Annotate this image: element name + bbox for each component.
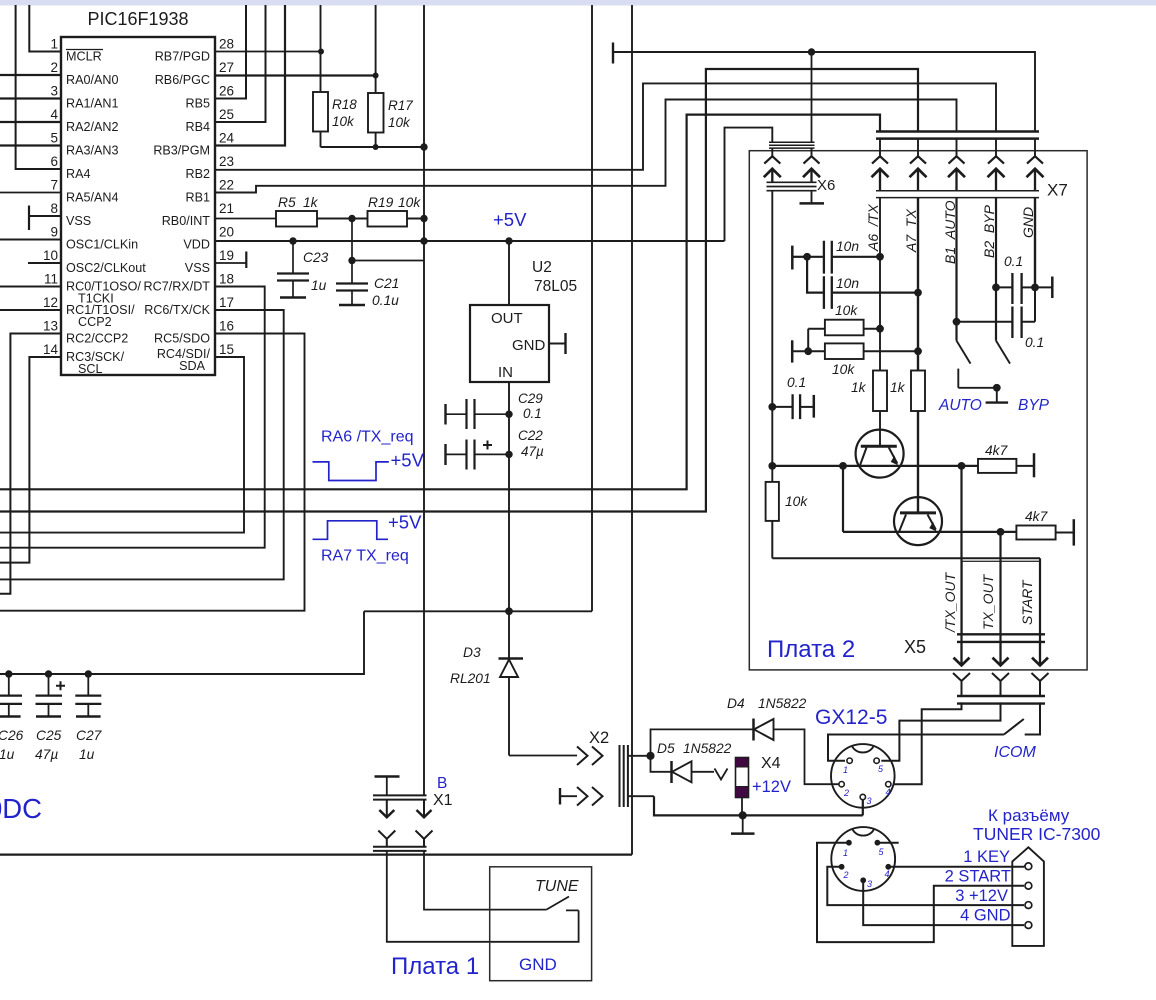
pin 5 wire <box>0 144 61 146</box>
svg-text:20: 20 <box>219 225 234 240</box>
resistor R17 <box>368 5 413 147</box>
pin 21 wire RB0/INT <box>215 218 276 220</box>
wire GND branch to X6 pin2 <box>811 52 813 142</box>
node VDD/B junction <box>420 237 427 244</box>
resistor 1k first <box>851 371 887 412</box>
wire B line vertical (to X1) <box>423 5 425 795</box>
svg-text:4k7: 4k7 <box>985 443 1009 458</box>
svg-text:X2: X2 <box>589 729 609 747</box>
label B2_BYP vertical <box>981 204 997 258</box>
svg-text:10k: 10k <box>835 303 858 318</box>
node R17 top junction <box>373 73 379 79</box>
svg-text:28: 28 <box>219 37 234 52</box>
svg-text:VDD: VDD <box>183 238 210 252</box>
connector X6 chevrons and pins <box>764 148 836 194</box>
blue waveform RA6 <box>313 429 425 481</box>
svg-text:18: 18 <box>219 272 234 287</box>
svg-text:4: 4 <box>885 869 890 879</box>
svg-text:2 START: 2 START <box>945 868 1011 886</box>
svg-text:+5V: +5V <box>388 512 422 533</box>
switch TUNE blade <box>546 897 569 910</box>
svg-text:RB6/PGC: RB6/PGC <box>155 73 210 87</box>
wire U2 GND lead terminal <box>549 333 566 354</box>
svg-text:13: 13 <box>43 319 58 334</box>
wire bottom long y854 <box>0 853 632 855</box>
svg-text:10k: 10k <box>332 114 355 129</box>
svg-text:+5V: +5V <box>493 209 527 230</box>
capacitor 0.1 lower right <box>953 287 1045 350</box>
svg-text:RA2/AN2: RA2/AN2 <box>66 120 119 134</box>
svg-text:+5V: +5V <box>391 450 425 471</box>
ground X6 pin2 <box>800 191 825 204</box>
wire rail2 <box>843 528 1016 536</box>
svg-text:1N5822: 1N5822 <box>758 696 807 711</box>
label 1 KEY <box>963 848 1010 866</box>
resistor 1k second <box>890 371 925 412</box>
svg-text:RL201: RL201 <box>450 671 491 686</box>
svg-text:Плата 2: Плата 2 <box>767 636 855 663</box>
wire B2_BYP inside board <box>995 198 997 341</box>
svg-text:К разъёму: К разъёму <box>988 806 1070 825</box>
wire X1 left pin to TUNE return <box>387 851 579 942</box>
svg-text:R18: R18 <box>332 97 357 112</box>
svg-text:1k: 1k <box>303 195 319 210</box>
wire GND top rail <box>613 48 1035 131</box>
wire GX12 upper pin3 to +12V <box>862 800 864 816</box>
capacitor 10n first <box>792 239 884 274</box>
capacitor C25 polarized <box>35 670 65 762</box>
diode D4 1N5822 <box>651 696 842 784</box>
pin 25 wire RB4 <box>215 5 266 122</box>
label A6_/TX vertical <box>865 204 881 252</box>
wire B1_AUTO inside board <box>955 198 957 341</box>
svg-text:14: 14 <box>43 342 59 357</box>
svg-text:RA7 TX_req: RA7 TX_req <box>321 548 409 565</box>
svg-text:21: 21 <box>219 201 234 216</box>
resistor 10k row1 <box>808 303 884 351</box>
resistor 4k7 first <box>978 443 1034 477</box>
svg-text:START: START <box>1019 579 1035 625</box>
svg-text:C22: C22 <box>518 428 543 443</box>
fuse holder X4 <box>736 755 792 815</box>
svg-text:0DC: 0DC <box>0 793 42 824</box>
transistor Q2 <box>894 497 942 545</box>
svg-text:6: 6 <box>50 154 58 169</box>
resistor R19 <box>352 195 424 227</box>
svg-text:OSC2/CLKout: OSC2/CLKout <box>66 261 146 275</box>
wire GX12 lower pin2 to +12V hole <box>827 867 1024 905</box>
wire A7 long line <box>0 69 918 512</box>
svg-text:R19: R19 <box>368 195 394 210</box>
svg-text:RC5/SDO: RC5/SDO <box>154 332 210 346</box>
pin 10 wire <box>28 262 61 264</box>
svg-text:A7_TX: A7_TX <box>903 209 919 253</box>
svg-text:10k: 10k <box>832 362 855 377</box>
pin 28 wire RB7/PGD <box>215 51 321 53</box>
pin 19 VSS terminal <box>215 252 246 269</box>
capacitor C22 polarized <box>446 428 545 470</box>
node D3 top junction <box>505 607 513 615</box>
node R5/R19 junction <box>348 215 355 222</box>
resistor 4k7 second <box>1016 509 1073 546</box>
label A7_TX vertical <box>903 209 919 253</box>
svg-text:AUTO: AUTO <box>938 397 982 414</box>
svg-text:4: 4 <box>50 107 58 122</box>
svg-text:GND: GND <box>512 337 546 354</box>
label 3 +12V <box>955 887 1008 905</box>
svg-text:X6: X6 <box>817 177 835 194</box>
label TX_OUT vertical <box>980 573 996 630</box>
svg-text:VSS: VSS <box>185 261 210 275</box>
svg-text:4 GND: 4 GND <box>960 907 1011 925</box>
svg-text:GX12-5: GX12-5 <box>815 706 887 729</box>
svg-text:CCP2: CCP2 <box>78 315 112 329</box>
svg-text:7: 7 <box>50 178 58 193</box>
svg-text:4k7: 4k7 <box>1025 509 1049 524</box>
pin 22 wire RB1 to B1_AUTO stair <box>215 100 957 193</box>
ground terminal top <box>612 43 614 64</box>
label B1_AUTO vertical <box>942 200 958 264</box>
svg-text:26: 26 <box>219 84 234 99</box>
pin 11 wire <box>0 286 61 288</box>
svg-text:MCLR: MCLR <box>66 50 102 64</box>
svg-text:1u: 1u <box>311 278 327 293</box>
wire horizontal y611 <box>364 610 592 612</box>
diode D5 1N5822 <box>651 741 732 783</box>
svg-text:C26: C26 <box>0 728 24 743</box>
pin 20 VDD +5V rail <box>215 240 725 242</box>
resistor 10k row2 <box>792 340 922 377</box>
svg-text:1N5822: 1N5822 <box>683 741 732 756</box>
svg-text:12: 12 <box>43 295 58 310</box>
svg-text:C21: C21 <box>374 276 399 291</box>
svg-text:27: 27 <box>219 60 234 75</box>
label /TX_OUT vertical <box>942 571 958 633</box>
svg-text:3 +12V: 3 +12V <box>955 887 1008 905</box>
svg-text:RA4: RA4 <box>66 167 91 181</box>
svg-text:4: 4 <box>886 787 891 797</box>
svg-text:X4: X4 <box>761 755 781 772</box>
wire U2 OUT lead <box>505 237 512 305</box>
pin 26 wire RB5 <box>215 5 246 99</box>
pin 2 wire <box>0 74 61 76</box>
pin 1 wire MCLR <box>29 5 61 52</box>
svg-text:C27: C27 <box>76 728 103 743</box>
svg-text:+12V: +12V <box>752 778 791 796</box>
svg-text:Плата 1: Плата 1 <box>391 953 479 980</box>
transistor Q1 <box>856 430 904 478</box>
connector X5 arrows down <box>954 642 1049 666</box>
node X2/D4/D5 junction <box>646 752 654 760</box>
svg-text:2: 2 <box>50 60 58 75</box>
switch AUTO blade <box>957 341 971 388</box>
svg-text:RA0/AN0: RA0/AN0 <box>66 73 119 87</box>
svg-text:PIC16F1938: PIC16F1938 <box>87 9 188 29</box>
svg-text:RB5: RB5 <box>186 97 211 111</box>
svg-text:C25: C25 <box>36 728 62 743</box>
wire U2 IN lead down <box>508 382 510 611</box>
svg-text:RA6 /TX_req: RA6 /TX_req <box>321 429 413 446</box>
label GX12-5 <box>815 706 887 729</box>
diode D3 RL201 <box>450 611 523 755</box>
pin 18 wire RC7/RX/DT route <box>0 287 265 548</box>
svg-text:OUT: OUT <box>491 310 523 327</box>
wire A7_TX inside board <box>917 198 919 371</box>
wire START <box>1039 558 1041 641</box>
svg-text:TX_OUT: TX_OUT <box>980 573 996 630</box>
IC pin numbers and names <box>43 37 235 377</box>
svg-text:BYP: BYP <box>1018 397 1050 414</box>
voltage regulator U2 78L05 <box>470 259 577 382</box>
svg-text:B2_BYP: B2_BYP <box>981 204 997 258</box>
capacitor C29 <box>446 391 544 429</box>
connector X5 field box <box>962 561 1040 634</box>
wire A6 long line <box>0 115 880 490</box>
wire X6 pin1 inside board <box>771 191 773 482</box>
wire GND inside board <box>1034 198 1036 288</box>
svg-text:3: 3 <box>867 879 872 889</box>
label К разъёму <box>988 806 1070 825</box>
svg-text:D3: D3 <box>463 645 481 660</box>
connector X2 <box>509 729 654 807</box>
svg-text:RB0/INT: RB0/INT <box>162 214 211 228</box>
capacitor 0.1 upper right <box>992 254 1052 304</box>
svg-text:TUNE: TUNE <box>535 878 579 895</box>
svg-text:0.1: 0.1 <box>1025 335 1044 350</box>
svg-text:1: 1 <box>843 848 848 858</box>
svg-text:1: 1 <box>50 37 58 52</box>
svg-text:0.1u: 0.1u <box>372 293 399 308</box>
connector X7 chevrons arrows bars <box>872 139 1044 198</box>
wire +12V bottom run <box>654 796 863 815</box>
svg-text:SCL: SCL <box>78 362 103 376</box>
capacitor C23 <box>277 237 329 297</box>
pin 16 wire RC5/SDO route <box>0 334 305 611</box>
svg-text:47µ: 47µ <box>521 444 544 459</box>
pin 7 wire <box>0 192 61 194</box>
svg-text:X1: X1 <box>433 792 453 809</box>
svg-text:/TX_OUT: /TX_OUT <box>942 571 958 633</box>
svg-text:0.1: 0.1 <box>1004 254 1023 269</box>
svg-text:10n: 10n <box>836 276 859 291</box>
pin 23 wire RB2 to B2_BYP stair <box>215 83 996 169</box>
svg-text:RA3/AN3: RA3/AN3 <box>66 144 119 158</box>
connector X6 cable bars <box>769 142 815 148</box>
wire R18/R17 bottom rail <box>321 146 425 148</box>
svg-text:R5: R5 <box>278 195 296 210</box>
svg-text:1u: 1u <box>0 747 15 762</box>
capacitor C27 <box>75 670 102 762</box>
pin 8 VSS terminal <box>29 206 61 231</box>
svg-text:C29: C29 <box>518 391 543 406</box>
svg-text:10k: 10k <box>388 115 411 130</box>
vertical from top x592 to D3 node <box>591 5 593 611</box>
svg-text:X7: X7 <box>1047 181 1068 200</box>
plug TUNER outline <box>1012 847 1044 946</box>
resistor 10k vertical board2 <box>766 482 809 558</box>
svg-text:47µ: 47µ <box>35 747 58 762</box>
connector X1 upper half <box>373 775 453 817</box>
svg-text:1 KEY: 1 KEY <box>963 848 1010 866</box>
svg-text:RB3/PGM: RB3/PGM <box>153 144 210 158</box>
svg-text:RA1/AN1: RA1/AN1 <box>66 97 119 111</box>
connector X1 mating half <box>373 831 433 851</box>
svg-text:U2: U2 <box>532 259 552 276</box>
svg-text:10n: 10n <box>836 239 859 254</box>
vertical from top x632 down to bottom wire <box>631 5 633 855</box>
svg-text:VSS: VSS <box>66 214 91 228</box>
label Плата 1 <box>391 953 479 980</box>
label TUNER IC-7300 <box>973 824 1101 844</box>
svg-text:B: B <box>437 775 447 792</box>
connector X7 cable bars <box>876 132 1039 139</box>
wire bottom rail board2 to START <box>772 557 1040 559</box>
svg-text:RC2/CCP2: RC2/CCP2 <box>66 332 128 346</box>
label 2 START <box>945 868 1011 886</box>
svg-text:IN: IN <box>498 364 513 381</box>
wire /TX_OUT <box>960 466 962 642</box>
label ODC blue <box>0 793 42 824</box>
svg-text:3: 3 <box>867 796 872 806</box>
svg-text:5: 5 <box>50 131 58 146</box>
label AUTO <box>938 397 982 414</box>
svg-text:1k: 1k <box>851 380 867 395</box>
pin 27 wire RB6/PGC <box>215 74 376 76</box>
IC U1 PIC16F1938 body <box>61 9 215 375</box>
wire X5 pin1 to GX12 pin4 <box>893 702 962 784</box>
svg-text:16: 16 <box>219 319 234 334</box>
pin 12 wire <box>0 309 61 311</box>
node rail junctions <box>373 143 428 150</box>
capacitor 0.1 left board2 <box>768 375 813 419</box>
pin 6 wire <box>16 5 61 169</box>
wire GX12 lower pin3 to GND hole <box>863 880 1024 925</box>
svg-text:RB7/PGD: RB7/PGD <box>155 50 210 64</box>
svg-text:10k: 10k <box>398 195 421 210</box>
wire X5 pin2 to GX12 pin5 <box>881 702 1000 760</box>
svg-text:78L05: 78L05 <box>534 278 577 295</box>
connector X5 bars <box>957 634 1045 642</box>
svg-text:1: 1 <box>843 765 848 775</box>
capacitor C26 <box>0 670 24 762</box>
svg-text:1k: 1k <box>890 380 906 395</box>
svg-text:D4: D4 <box>727 696 745 711</box>
wire C21 node line <box>352 219 424 284</box>
pin 13 wire RC2/CCP2 route to left edge <box>0 334 61 594</box>
wire rail1 <box>768 462 978 470</box>
wire GX12 lower pin1 to START hole <box>817 843 1024 942</box>
board box Плата 2 <box>749 151 1087 670</box>
wire Q2 base lead <box>917 411 919 513</box>
wire X1 right pin to TUNE switch <box>424 851 546 910</box>
resistor R18 <box>313 5 357 147</box>
svg-text:RB4: RB4 <box>186 120 211 134</box>
node R19/B junction <box>420 215 427 222</box>
svg-text:2: 2 <box>843 788 849 798</box>
wire +5V riser to X6 <box>725 128 773 241</box>
svg-text:11: 11 <box>44 272 58 287</box>
svg-text:GND: GND <box>1020 207 1036 238</box>
pin 15 wire RC4/SDI route <box>0 357 244 533</box>
capacitor C21 <box>336 276 399 308</box>
node R18 top junction <box>318 49 324 55</box>
svg-text:OSC1/CLKin: OSC1/CLKin <box>66 238 138 252</box>
svg-text:10k: 10k <box>785 494 808 509</box>
label +5V near U2 <box>493 209 527 230</box>
connector GX12-5 lower circle <box>831 827 895 891</box>
resistor R5 <box>276 195 352 227</box>
svg-text:RC7/RX/DT: RC7/RX/DT <box>144 280 211 294</box>
svg-text:RC6/TX/CK: RC6/TX/CK <box>144 303 210 317</box>
svg-text:24: 24 <box>219 131 235 146</box>
wire A6_/TX inside board <box>879 198 881 371</box>
capacitor 10n second <box>807 257 922 309</box>
wire Q1-Q2 link vertical <box>842 466 844 532</box>
svg-text:C23: C23 <box>303 250 329 265</box>
svg-text:9: 9 <box>50 225 58 240</box>
connector X5 mating chevrons <box>953 673 1049 704</box>
wire X5 pin3 to ICOM switch <box>1025 702 1040 734</box>
label BYP <box>1018 397 1050 414</box>
svg-text:2: 2 <box>843 870 849 880</box>
node C21 top junction <box>348 257 355 264</box>
pin 4 wire <box>0 121 61 123</box>
label 4 GND <box>960 907 1011 925</box>
blue waveform RA7 <box>313 512 423 565</box>
svg-text:3: 3 <box>50 84 58 99</box>
switch BYP blade <box>996 341 1010 364</box>
wire GX12 lower pin5 stub <box>877 842 898 844</box>
svg-text:A6_/TX: A6_/TX <box>865 204 881 252</box>
top lavender strip <box>0 0 1156 6</box>
svg-text:22: 22 <box>219 178 234 193</box>
svg-text:GND: GND <box>519 955 557 974</box>
svg-text:ICOM: ICOM <box>994 744 1036 761</box>
svg-text:15: 15 <box>219 342 234 357</box>
label START vertical <box>1019 579 1035 625</box>
ground under X4 <box>731 815 755 833</box>
pin 14 wire RC3 route to left edge <box>0 357 61 563</box>
connector GX12-5 upper circle <box>831 744 895 808</box>
label X7 <box>1047 181 1068 200</box>
svg-text:RA5/AN4: RA5/AN4 <box>66 191 119 205</box>
svg-text:D5: D5 <box>657 741 675 756</box>
wire Q1 base lead <box>879 411 881 446</box>
wire GX12 lower pin4 to KEY hole <box>888 865 1025 868</box>
svg-text:10: 10 <box>43 248 58 263</box>
svg-text:25: 25 <box>219 107 234 122</box>
svg-text:8: 8 <box>50 201 58 216</box>
svg-text:TUNER IC-7300: TUNER IC-7300 <box>973 824 1101 844</box>
svg-text:X5: X5 <box>904 637 926 657</box>
wire TX_OUT <box>999 532 1001 642</box>
svg-text:1u: 1u <box>79 747 95 762</box>
pin 9 wire <box>0 239 61 241</box>
pin 17 wire RC6/TX/CK route <box>0 310 284 579</box>
svg-text:17: 17 <box>219 295 234 310</box>
node X4 bottom junction <box>739 811 747 819</box>
svg-text:0.1: 0.1 <box>787 375 806 390</box>
svg-text:RB1: RB1 <box>186 191 211 205</box>
label GND vertical <box>1020 207 1036 238</box>
board box Плата 1 (TUNE box) <box>490 867 592 981</box>
svg-text:0.1: 0.1 <box>523 406 542 421</box>
svg-text:19: 19 <box>219 248 234 263</box>
svg-text:23: 23 <box>219 154 234 169</box>
wire caps rail y674 <box>0 611 364 674</box>
switch ICOM <box>828 719 1036 761</box>
svg-text:R17: R17 <box>388 98 413 113</box>
